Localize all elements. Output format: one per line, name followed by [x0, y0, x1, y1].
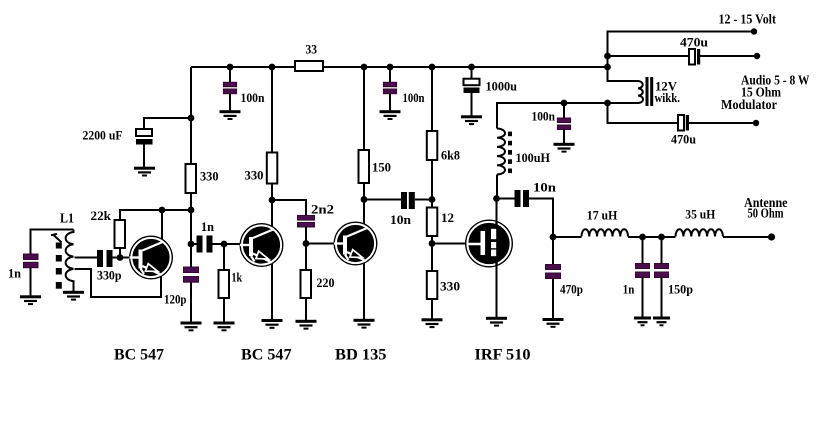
wire 10n output branch	[497, 198, 515, 200]
svg-text:BD 135: BD 135	[335, 347, 387, 364]
ground (330 IRF)	[422, 318, 443, 328]
wire 330 to Q2 collector	[271, 184, 273, 233]
svg-text:17 uH: 17 uH	[587, 208, 618, 223]
wire collector Q1	[161, 210, 163, 242]
transformer T1 12V winding	[638, 81, 643, 103]
svg-text:IRF 510: IRF 510	[475, 347, 531, 364]
svg-text:50 Ohm: 50 Ohm	[748, 206, 785, 221]
wire emitter Q2	[271, 258, 273, 319]
svg-text:150p: 150p	[668, 282, 693, 297]
svg-text:100uH: 100uH	[516, 150, 551, 165]
ground (100n second)	[380, 110, 401, 120]
svg-text:120p: 120p	[164, 292, 187, 307]
capacitor 150p	[655, 264, 669, 269]
svg-text:BC 547: BC 547	[114, 347, 164, 364]
capacitor 120p	[184, 267, 199, 273]
capacitor 330p	[97, 250, 103, 267]
node dot gate bias top	[429, 196, 436, 203]
100uH core dashes	[508, 132, 512, 174]
wire stage3 rail drop	[363, 67, 365, 150]
wire 100n cap 2 drop	[389, 67, 391, 82]
node dot base Q2	[221, 241, 228, 248]
wire 470p ground lead	[552, 279, 554, 319]
svg-text:330: 330	[440, 279, 460, 294]
node dot rail at 390	[387, 64, 394, 71]
ground (470p)	[543, 318, 564, 328]
node dot collector Q3	[361, 196, 368, 203]
svg-text:33: 33	[306, 42, 318, 57]
wire base Q3	[306, 243, 335, 245]
node dot rail at 230	[227, 64, 234, 71]
svg-text:470u: 470u	[671, 132, 696, 147]
wire 100n2 lead	[389, 94, 391, 111]
node dot 470p	[550, 234, 557, 241]
svg-text:100n: 100n	[532, 109, 556, 124]
node dot rail at 471.5	[468, 64, 475, 71]
wire 6k8 rail drop	[431, 67, 433, 131]
wire 220 lead	[305, 244, 307, 271]
resistor 330 (stage1 collector)	[186, 164, 197, 193]
ground (100n first)	[220, 110, 241, 120]
svg-text:L1: L1	[60, 211, 74, 226]
wire 12 to 330	[431, 236, 433, 271]
capacitor 10n output	[515, 190, 521, 207]
wire 100n3 to ground	[563, 130, 565, 144]
wire 22k top to collector node	[120, 210, 191, 220]
resistor 150	[359, 150, 370, 183]
wire 120p to ground	[190, 280, 192, 322]
terminal audio bottom	[753, 120, 759, 126]
node dot 150p	[658, 234, 665, 241]
wire to antenna	[723, 236, 772, 238]
wire 150p ground lead	[661, 278, 663, 318]
svg-text:35 uH: 35 uH	[685, 207, 715, 222]
transistor Q1 BC547	[129, 236, 173, 280]
terminal antenna	[768, 233, 775, 240]
wire 100n cap 1 drop	[229, 67, 231, 82]
wire 1n filter ground lead	[642, 278, 644, 318]
ground (Q2 emitter)	[262, 319, 283, 329]
node dot 330/22k junction	[188, 207, 195, 214]
transformer core bars	[646, 77, 649, 106]
wire 2200uF lead	[143, 145, 145, 168]
wire 470u top left	[608, 55, 690, 57]
wire input top	[31, 230, 74, 255]
svg-text:1n: 1n	[623, 282, 635, 297]
ground (IRF source)	[486, 317, 507, 327]
svg-text:470u: 470u	[680, 35, 708, 50]
node dot base Q1	[117, 254, 124, 261]
wire 2200uF branch	[144, 118, 191, 129]
resistor 33	[295, 61, 323, 71]
wire 1n filter lead	[642, 237, 644, 264]
node dot rail at 272	[269, 64, 276, 71]
svg-text:12: 12	[441, 210, 454, 225]
ground (100n third)	[554, 143, 575, 153]
svg-text:Modulator: Modulator	[721, 97, 777, 112]
svg-text:1n: 1n	[8, 266, 22, 281]
node dot drain	[493, 195, 500, 202]
wire modulator drop	[608, 103, 679, 123]
wire source	[496, 256, 498, 317]
wire 220 to ground	[305, 298, 307, 320]
wire 470u top right	[700, 55, 757, 57]
svg-text:330: 330	[200, 169, 219, 184]
svg-text:150: 150	[372, 160, 391, 175]
svg-text:2n2: 2n2	[311, 202, 334, 217]
wire 10n to filter	[529, 199, 553, 238]
wire 2n2 to base node	[305, 227, 307, 244]
svg-text:1000u: 1000u	[486, 79, 518, 94]
ground (1n filter)	[634, 317, 651, 327]
inductor 17uH	[582, 229, 629, 236]
wire 330p to base	[113, 257, 130, 259]
node dot collector Q2	[269, 197, 276, 204]
wire between coils	[628, 236, 676, 238]
svg-text:12 - 15 Volt: 12 - 15 Volt	[719, 12, 777, 27]
wire 10n to gate node	[415, 199, 432, 201]
node dot gate node	[429, 240, 436, 247]
wire 1000u lead	[471, 93, 473, 116]
wire riser lower	[608, 67, 639, 81]
wire 1n to base Q2	[213, 243, 241, 245]
wire supply riser	[608, 32, 755, 68]
transistor Q3 BD135	[334, 222, 378, 266]
wire 1n input lead	[30, 268, 32, 296]
capacitor 470u top	[689, 49, 695, 65]
capacitor 470p	[546, 265, 561, 270]
node dot riser 470u	[604, 53, 611, 60]
svg-text:330: 330	[245, 168, 264, 183]
ground (2200uF)	[134, 167, 155, 177]
ground (120p)	[181, 322, 202, 332]
wire Q3 collector to 10n	[364, 199, 401, 201]
wire 100n1 lead	[229, 94, 231, 111]
svg-text:BC 547: BC 547	[241, 347, 292, 364]
resistor 12	[427, 208, 438, 237]
svg-text:220: 220	[317, 275, 335, 290]
ground (150p)	[653, 317, 670, 327]
svg-text:10n: 10n	[533, 180, 557, 195]
capacitor 100n (first)	[223, 82, 236, 86]
ground (1000u)	[461, 115, 482, 125]
wire filter line	[553, 236, 582, 238]
node dot base Q3	[303, 240, 310, 247]
node dot rail at 432	[429, 64, 436, 71]
capacitor 100n (second)	[383, 82, 396, 86]
wire gate	[432, 243, 466, 245]
supply rail wire	[191, 66, 608, 68]
resistor 22k	[115, 220, 126, 248]
wire 470p lead	[552, 237, 554, 265]
node dot modulator junction	[604, 100, 611, 107]
wire 150p lead	[661, 237, 663, 264]
capacitor 10n (gate coupling)	[401, 192, 407, 209]
capacitor 1000u	[464, 79, 480, 86]
ground (1n input)	[20, 295, 41, 305]
wire 100n3 lead	[563, 103, 565, 118]
svg-text:470p: 470p	[560, 282, 583, 297]
wire left vertical rail drop	[190, 67, 192, 269]
wire emitter Q1 feedback	[75, 269, 162, 297]
wire 1000u drop	[471, 67, 473, 79]
resistor 330 (stage2 collector)	[267, 153, 278, 184]
wire drain choke lead	[496, 175, 498, 199]
inductor 35uH	[676, 229, 723, 236]
wire 150 to Q3 collector	[363, 183, 365, 232]
node dot 1n filter	[639, 234, 646, 241]
wire 22k lead	[119, 248, 121, 258]
wire drain	[496, 199, 498, 231]
svg-text:1n: 1n	[201, 219, 215, 234]
node dot 1n coupling junction	[188, 241, 195, 248]
inductor 100uH	[497, 129, 505, 175]
resistor 6k8	[427, 131, 438, 160]
resistor 1k	[219, 270, 230, 298]
wire to 1n coupling	[191, 243, 197, 245]
L1 core dashes	[56, 243, 62, 289]
capacitor 1n filter	[636, 264, 650, 269]
svg-text:22k: 22k	[91, 208, 112, 223]
svg-text:330p: 330p	[97, 268, 122, 283]
node dot riser rail	[604, 64, 611, 71]
svg-text:10n: 10n	[390, 212, 412, 227]
transistor U1 IRF510	[465, 220, 513, 268]
capacitor 470u bottom	[678, 115, 684, 131]
wire L1 tap to 330p	[75, 257, 98, 259]
svg-text:100n: 100n	[403, 90, 426, 105]
node dot 100n3 junction	[561, 100, 568, 107]
transistor Q2 BC547	[240, 223, 284, 267]
inductor L1	[66, 230, 74, 292]
capacitor 1n input	[24, 254, 39, 260]
terminal audio top	[754, 53, 760, 59]
resistor 220	[301, 270, 312, 298]
L1 adjuster arrow	[51, 234, 62, 243]
svg-text:2200 uF: 2200 uF	[83, 128, 123, 143]
wire 2n2 branch	[272, 200, 306, 216]
node dot rail at 364	[361, 64, 368, 71]
wire 1k lead	[223, 244, 225, 270]
wire stage2 rail drop	[271, 67, 273, 153]
wire 470u bottom right	[689, 122, 756, 124]
capacitor 2n2	[298, 216, 315, 221]
ground (Q3 emitter)	[354, 319, 375, 329]
svg-text:1k: 1k	[232, 270, 243, 285]
terminal 12-15V	[751, 28, 757, 34]
capacitor 100n (third)	[557, 118, 570, 123]
node dot collector Q1	[159, 207, 166, 214]
svg-text:wikk.: wikk.	[655, 90, 681, 105]
ground (220)	[296, 320, 317, 330]
wire emitter Q3	[363, 256, 365, 319]
wire 6k8 to 12	[431, 160, 433, 208]
svg-text:6k8: 6k8	[441, 148, 460, 163]
ground (L1)	[63, 291, 84, 301]
wire 1k to ground	[223, 298, 225, 322]
capacitor 2200uF	[136, 129, 152, 136]
wire 100uH top	[497, 103, 638, 129]
wire 330 to ground	[431, 299, 433, 319]
resistor 330 (IRF gate)	[427, 271, 438, 299]
capacitor 1n coupling	[197, 236, 203, 253]
svg-text:100n: 100n	[241, 90, 266, 105]
ground (1k)	[214, 322, 235, 332]
node dot 2200uF branch	[188, 115, 195, 122]
